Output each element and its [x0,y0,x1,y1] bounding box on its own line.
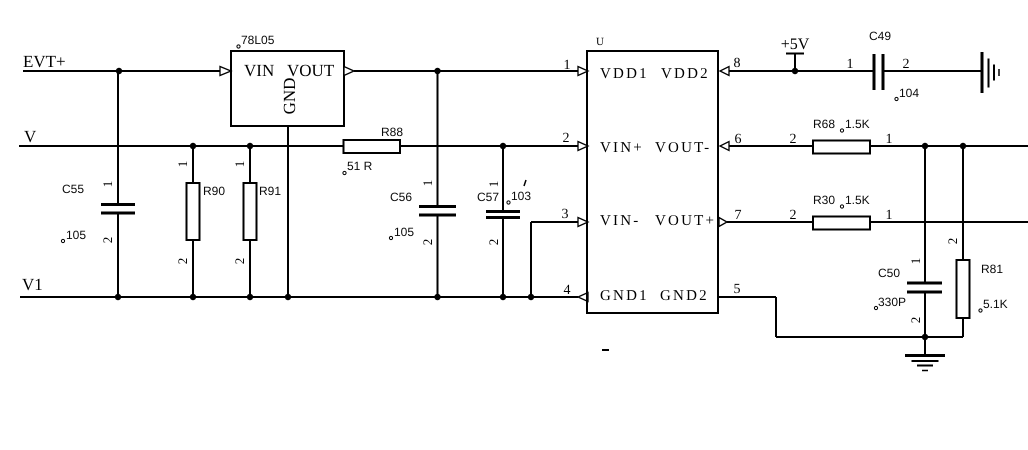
wire row A 78L05 output to U pin1 [354,70,578,72]
small circle marker of R30 value [840,205,843,208]
svg-text:2: 2 [486,239,501,246]
svg-text:1: 1 [420,180,435,187]
pin 3 arrow of U [578,218,588,227]
junction dot V / R91 [247,143,253,149]
junction dot V1 / C56 [434,294,440,300]
IC U box [587,51,718,313]
svg-text:VDD2: VDD2 [661,66,710,82]
svg-text:C57: C57 [477,190,499,204]
svg-text:2: 2 [232,258,247,265]
svg-text:1: 1 [886,208,893,223]
wire EVT+ row A left [23,70,220,72]
small circle marker of 103 [507,201,510,204]
svg-text:1: 1 [908,258,923,265]
wire GND2 bottom run [776,336,963,338]
junction dot node 5V / C56 [434,68,440,74]
svg-text:5.1K: 5.1K [983,297,1008,311]
resistor R68 [813,141,870,154]
svg-text:1: 1 [847,57,854,72]
svg-text:VOUT+: VOUT+ [655,213,716,229]
svg-text:5: 5 [734,282,741,297]
junction dot V1 / VIN- branch [528,294,534,300]
wire row A right pin8 to C49 [729,70,874,72]
svg-text:51 R: 51 R [347,159,373,173]
svg-text:+5V: +5V [781,36,810,53]
capacitor C50 lead top [924,146,926,283]
stray dash mark [602,349,609,351]
capacitor C50 plates [907,282,942,285]
junction dot V1 / R90 [190,294,196,300]
svg-text:6: 6 [735,132,742,147]
capacitor C55 plates [101,203,135,206]
svg-text:C49: C49 [869,29,891,43]
svg-text:C56: C56 [390,190,412,204]
junction dot VOUT- / R81 [960,143,966,149]
capacitor C57 lead top [502,146,504,212]
svg-text:V1: V1 [22,275,43,294]
wire R30 to right edge [870,221,1028,223]
capacitor C55 lead bottom [117,213,119,297]
resistor R90 body [187,183,200,240]
svg-text:8: 8 [734,56,741,71]
svg-text:U: U [596,36,604,48]
svg-text:V: V [24,127,37,146]
svg-text:2: 2 [175,258,190,265]
svg-text:GND2: GND2 [660,288,709,304]
svg-text:VIN+: VIN+ [600,140,644,156]
svg-text:2: 2 [563,131,570,146]
svg-text:R88: R88 [381,125,403,139]
svg-text:2: 2 [420,239,435,246]
svg-text:VOUT: VOUT [287,61,335,80]
resistor R81 lead bottom [962,318,964,337]
small circle marker of 51R [343,171,346,174]
svg-text:C50: C50 [878,266,900,280]
resistor R30 [813,217,870,230]
svg-text:7: 7 [735,208,742,223]
svg-text:VIN-: VIN- [600,213,640,229]
svg-text:105: 105 [66,228,86,242]
small circle marker of C56 105 [389,236,392,239]
junction dot ground node [922,334,928,340]
capacitor C57 lead bottom [502,218,504,298]
small circle marker of 5.1K [979,309,982,312]
junction dot VOUT- / C50 [922,143,928,149]
power +5V bar [786,53,804,55]
svg-text:1: 1 [886,132,893,147]
wire R68 to right edge [870,145,1028,147]
svg-text:EVT+: EVT+ [23,52,66,71]
regulator 78L05 box [231,51,344,126]
svg-text:VIN: VIN [244,61,274,80]
junction dot node EVT+ / C55 [116,68,122,74]
svg-text:1.5K: 1.5K [845,193,870,207]
ground symbol right rotated [981,52,984,93]
svg-text:1: 1 [564,58,571,73]
capacitor C56 plates [419,205,456,208]
svg-text:1: 1 [100,181,115,188]
tick mark above 103 [524,180,526,186]
wire VIN- vertical branch [530,222,532,297]
capacitor C56 lead top [437,71,439,207]
svg-text:R68: R68 [813,117,835,131]
capacitor C56 lead bottom [437,215,439,297]
svg-text:C55: C55 [62,182,84,196]
svg-text:330P: 330P [878,295,906,309]
small circle marker of 104 [895,97,898,100]
wire pin7 to R30 [727,221,813,223]
small circle marker of R68 value [840,129,843,132]
svg-text:VOUT-: VOUT- [655,140,711,156]
junction dot V / R90 [190,143,196,149]
capacitor C55 lead top [117,71,119,205]
pin 7 arrow of U [719,218,727,227]
svg-text:78L05: 78L05 [241,33,275,47]
svg-text:1: 1 [486,181,501,188]
junction dot V1 / C57 [500,294,506,300]
resistor R90 lead top [192,146,194,183]
svg-text:GND: GND [280,78,299,115]
junction dot V1 / R91 [247,294,253,300]
pin 5 wire GND2 [718,296,776,298]
power +5V stub [794,54,796,71]
svg-text:R91: R91 [259,184,281,198]
svg-text:2: 2 [100,237,115,244]
pin 8 arrow of U [720,67,729,76]
wire C49 to ground [883,70,982,72]
ground symbol bottom stub [924,337,926,355]
resistor R81 lead top [962,146,964,260]
wire GND2 vertical drop [775,297,777,337]
ground symbol bottom bars [905,354,945,357]
resistor R88 [344,140,401,153]
wire pin6 to R68 [729,145,813,147]
wire V1 row D [20,296,578,298]
svg-text:2: 2 [908,317,923,324]
capacitor C57 plates [486,210,520,213]
wire V row B left [19,145,344,147]
svg-text:3: 3 [562,207,569,222]
resistor R90 lead bottom [192,240,194,297]
svg-text:2: 2 [790,208,797,223]
pin 4 arrow of U [578,293,588,302]
regulator output arrow [344,67,354,76]
svg-text:R30: R30 [813,193,835,207]
small circle marker of 78L05 label [237,45,240,48]
svg-text:2: 2 [790,132,797,147]
junction dot V1 / 78L05 GND [285,294,291,300]
capacitor C49 plates [873,54,876,90]
resistor R91 lead top [249,146,251,183]
junction dot V / C57 [500,143,506,149]
svg-text:4: 4 [564,283,571,298]
svg-text:R81: R81 [981,262,1003,276]
pin 2 arrow of U [578,142,588,151]
regulator input arrow pin [220,67,231,76]
svg-text:1.5K: 1.5K [845,117,870,131]
svg-text:104: 104 [899,86,919,100]
svg-text:VDD1: VDD1 [600,66,649,82]
pin 1 arrow of U [578,67,588,76]
junction dot V1 / C55 [115,294,121,300]
capacitor C50 lead bottom [924,292,926,337]
svg-text:1: 1 [232,161,247,168]
small circle marker of 330P [874,306,877,309]
svg-text:R90: R90 [203,184,225,198]
wire VIN- horizontal to pin3 [531,221,578,223]
resistor R91 body [244,183,257,240]
svg-text:1: 1 [175,161,190,168]
pin 6 arrow of U [720,142,729,151]
wire 78L05 GND lead [287,126,289,297]
small circle marker of 105 [61,239,64,242]
svg-text:2: 2 [903,57,910,72]
resistor R81 body [957,260,970,318]
wire row B R88 to U pin2 [400,145,578,147]
svg-text:2: 2 [945,238,960,245]
svg-text:105: 105 [394,225,414,239]
junction dot +5V node [792,68,798,74]
svg-text:103: 103 [511,189,531,203]
svg-text:GND1: GND1 [600,288,649,304]
resistor R91 lead bottom [249,240,251,297]
